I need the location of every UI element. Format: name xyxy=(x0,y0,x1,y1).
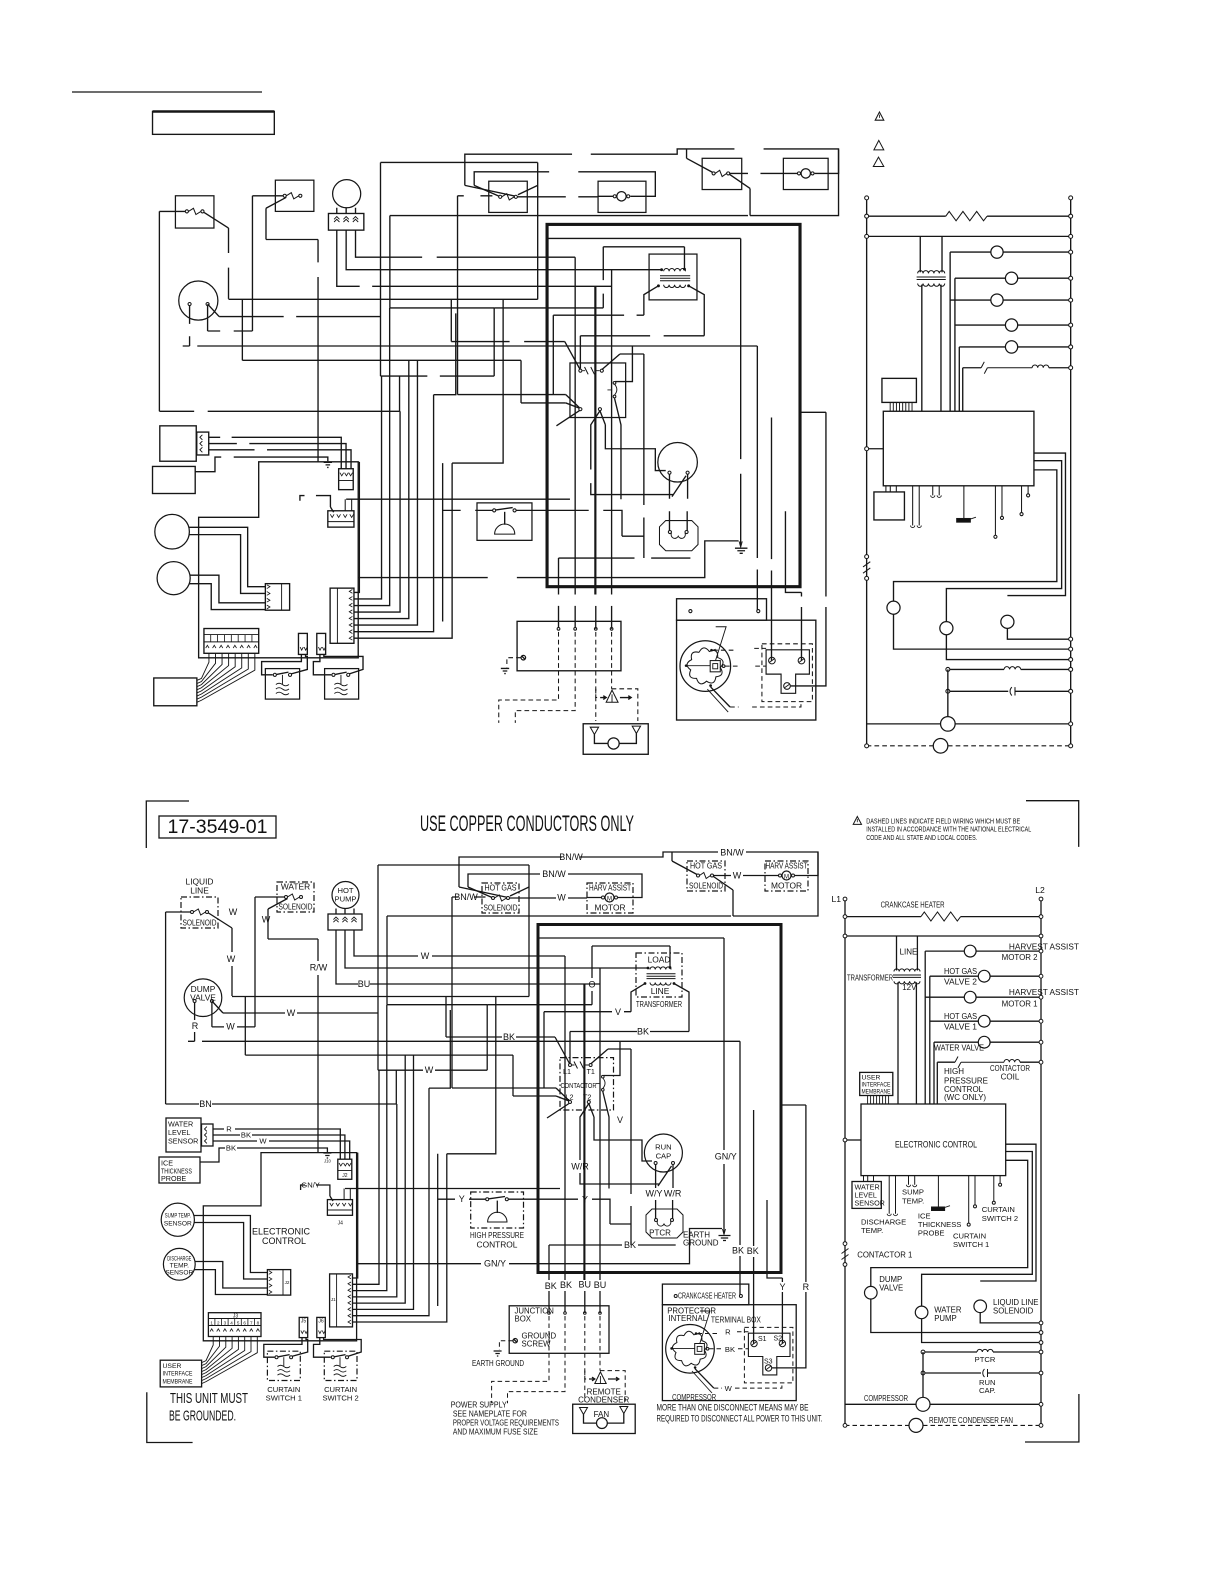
svg-text:V: V xyxy=(615,1007,621,1017)
svg-text:MOTOR: MOTOR xyxy=(594,903,625,913)
svg-text:PUMP: PUMP xyxy=(934,1314,957,1323)
svg-text:COMPRESSOR: COMPRESSOR xyxy=(864,1394,908,1403)
svg-text:AND MAXIMUM FUSE SIZE: AND MAXIMUM FUSE SIZE xyxy=(453,1427,538,1437)
svg-text:BK: BK xyxy=(747,1246,759,1256)
svg-text:W: W xyxy=(733,870,742,880)
svg-text:J1: J1 xyxy=(331,1297,336,1302)
svg-text:W: W xyxy=(425,1065,434,1075)
svg-text:W: W xyxy=(287,1008,296,1018)
svg-text:R: R xyxy=(226,1125,232,1134)
svg-text:CRANKCASE HEATER: CRANKCASE HEATER xyxy=(678,1292,736,1301)
svg-text:SWITCH 1: SWITCH 1 xyxy=(953,1240,989,1249)
svg-text:CONTROL: CONTROL xyxy=(262,1236,306,1246)
svg-text:W: W xyxy=(557,893,566,903)
svg-text:PUMP: PUMP xyxy=(335,895,357,904)
svg-text:MEMBRANE: MEMBRANE xyxy=(862,1088,891,1095)
svg-text:J10: J10 xyxy=(324,1159,331,1164)
svg-text:V: V xyxy=(617,1115,623,1125)
svg-text:J3: J3 xyxy=(233,1314,239,1320)
svg-text:Y: Y xyxy=(459,1194,465,1204)
svg-text:12V: 12V xyxy=(902,983,917,992)
svg-text:W/R: W/R xyxy=(664,1189,682,1199)
svg-text:L2: L2 xyxy=(1035,885,1045,895)
svg-text:HOT GAS: HOT GAS xyxy=(485,883,517,893)
svg-text:THIS UNIT MUST: THIS UNIT MUST xyxy=(170,1391,248,1407)
svg-text:3: 3 xyxy=(224,1320,227,1325)
svg-text:HIGH: HIGH xyxy=(944,1067,964,1076)
svg-text:W: W xyxy=(259,1137,267,1146)
ghost note triangle 3 xyxy=(873,157,884,166)
svg-text:PTCR: PTCR xyxy=(975,1355,996,1364)
svg-text:CAP.: CAP. xyxy=(979,1386,996,1395)
svg-text:SOLENOID: SOLENOID xyxy=(279,902,313,912)
svg-text:T2: T2 xyxy=(583,1093,591,1102)
svg-text:BU: BU xyxy=(579,1280,592,1290)
svg-text:INTERFACE: INTERFACE xyxy=(163,1371,193,1378)
svg-text:BK: BK xyxy=(545,1281,557,1291)
svg-text:Y: Y xyxy=(582,1195,588,1205)
svg-text:R: R xyxy=(803,1282,810,1292)
svg-text:COIL: COIL xyxy=(1001,1073,1020,1082)
svg-text:FAN: FAN xyxy=(594,1410,610,1419)
svg-text:MOTOR 2: MOTOR 2 xyxy=(1002,953,1039,962)
svg-text:J2: J2 xyxy=(285,1280,290,1285)
svg-text:GROUND: GROUND xyxy=(683,1239,719,1248)
svg-text:S2: S2 xyxy=(774,1335,783,1342)
svg-text:PTCR: PTCR xyxy=(649,1229,671,1238)
svg-text:SCREW: SCREW xyxy=(522,1340,552,1349)
svg-text:ELECTRONIC: ELECTRONIC xyxy=(252,1226,311,1236)
svg-text:BK: BK xyxy=(503,1032,515,1042)
svg-text:BK: BK xyxy=(624,1240,636,1250)
svg-text:BK: BK xyxy=(732,1245,744,1255)
svg-text:CRANKCASE HEATER: CRANKCASE HEATER xyxy=(881,901,945,910)
svg-text:ELECTRONIC CONTROL: ELECTRONIC CONTROL xyxy=(895,1139,977,1150)
svg-text:BN/W: BN/W xyxy=(720,847,744,857)
svg-text:PROBE: PROBE xyxy=(161,1174,186,1183)
svg-text:CURTAIN: CURTAIN xyxy=(982,1205,1015,1214)
svg-text:VALVE: VALVE xyxy=(879,1283,903,1292)
svg-text:REMOTE CONDENSER FAN: REMOTE CONDENSER FAN xyxy=(929,1416,1013,1425)
svg-text:5: 5 xyxy=(237,1320,240,1325)
svg-text:SOLENOID: SOLENOID xyxy=(183,918,217,928)
svg-text:W: W xyxy=(262,915,271,925)
svg-text:MORE THAN ONE DISCONNECT MEANS: MORE THAN ONE DISCONNECT MEANS MAY BE xyxy=(657,1402,809,1412)
svg-text:VALVE 1: VALVE 1 xyxy=(944,1022,978,1031)
svg-text:BU: BU xyxy=(358,979,371,989)
svg-text:L1: L1 xyxy=(563,1067,571,1076)
svg-text:DISCHARGE: DISCHARGE xyxy=(167,1255,191,1262)
svg-text:CONDENSER: CONDENSER xyxy=(578,1396,629,1405)
svg-text:S3: S3 xyxy=(764,1359,773,1366)
svg-text:MOTOR: MOTOR xyxy=(771,881,802,891)
svg-text:USER: USER xyxy=(163,1363,182,1370)
svg-text:L2: L2 xyxy=(566,1093,574,1102)
svg-text:HARVEST ASSIST: HARVEST ASSIST xyxy=(1009,943,1079,952)
svg-text:HARV ASSIST: HARV ASSIST xyxy=(766,861,808,871)
svg-text:W: W xyxy=(226,1022,235,1032)
svg-text:SENSOR: SENSOR xyxy=(164,1221,192,1228)
corner bracket top-left xyxy=(146,801,189,848)
svg-text:W/R: W/R xyxy=(571,1161,589,1171)
svg-text:TEMP.: TEMP. xyxy=(170,1262,189,1269)
svg-text:Y: Y xyxy=(779,1282,785,1292)
svg-text:HOT GAS: HOT GAS xyxy=(944,1012,977,1021)
svg-text:SENSOR: SENSOR xyxy=(165,1269,193,1276)
svg-text:TERMINAL BOX: TERMINAL BOX xyxy=(711,1316,762,1325)
svg-text:7: 7 xyxy=(250,1320,253,1325)
svg-text:W: W xyxy=(229,907,238,917)
svg-text:2: 2 xyxy=(217,1320,220,1325)
svg-text:USE COPPER CONDUCTORS ONLY: USE COPPER CONDUCTORS ONLY xyxy=(420,811,634,836)
svg-text:COMPRESSOR: COMPRESSOR xyxy=(672,1393,716,1402)
svg-text:SOLENOID: SOLENOID xyxy=(484,903,518,913)
svg-text:HIGH PRESSURE: HIGH PRESSURE xyxy=(470,1230,524,1240)
svg-text:J6: J6 xyxy=(318,1319,324,1325)
svg-text:J5: J5 xyxy=(301,1319,307,1325)
svg-text:TRANSFORMER: TRANSFORMER xyxy=(847,974,893,983)
svg-text:HARV ASSIST: HARV ASSIST xyxy=(589,883,631,893)
svg-text:VALVE: VALVE xyxy=(190,993,216,1003)
svg-text:VALVE 2: VALVE 2 xyxy=(944,977,978,986)
svg-text:M: M xyxy=(607,896,612,902)
svg-text:CONTROL: CONTROL xyxy=(477,1239,518,1249)
svg-text:BK: BK xyxy=(725,1345,735,1354)
svg-text:LOAD: LOAD xyxy=(648,955,671,965)
svg-text:TRANSFORMER: TRANSFORMER xyxy=(636,999,682,1009)
svg-text:W: W xyxy=(227,954,236,964)
svg-text:8: 8 xyxy=(257,1320,260,1325)
svg-text:MEMBRANE: MEMBRANE xyxy=(163,1378,193,1385)
ghost header underline xyxy=(72,91,262,93)
svg-text:BK: BK xyxy=(226,1144,236,1153)
svg-text:REQUIRED TO DISCONNECT ALL POW: REQUIRED TO DISCONNECT ALL POWER TO THIS… xyxy=(657,1413,823,1423)
svg-text:HOT GAS: HOT GAS xyxy=(944,967,977,976)
svg-text:GN/Y: GN/Y xyxy=(301,1181,320,1190)
svg-text:1: 1 xyxy=(210,1320,213,1325)
svg-text:BK: BK xyxy=(637,1026,649,1036)
svg-text:SOLENOID: SOLENOID xyxy=(993,1307,1034,1316)
svg-text:W/Y: W/Y xyxy=(646,1189,663,1199)
svg-text:MOTOR 1: MOTOR 1 xyxy=(1002,999,1039,1008)
svg-text:R: R xyxy=(725,1328,731,1337)
svg-text:EARTH GROUND: EARTH GROUND xyxy=(472,1359,524,1368)
svg-text:W: W xyxy=(725,1384,733,1393)
svg-text:(WC ONLY): (WC ONLY) xyxy=(944,1093,986,1102)
corner bracket bottom-right xyxy=(1025,1394,1079,1442)
svg-text:HOT GAS: HOT GAS xyxy=(690,861,722,871)
svg-text:WATER: WATER xyxy=(281,882,310,892)
svg-text:HARVEST ASSIST: HARVEST ASSIST xyxy=(1009,988,1079,997)
svg-text:GN/Y: GN/Y xyxy=(715,1152,737,1162)
svg-text:BK: BK xyxy=(241,1131,251,1140)
svg-text:T1: T1 xyxy=(587,1067,595,1076)
svg-text:INTERNAL: INTERNAL xyxy=(669,1314,708,1323)
corner bracket top-right xyxy=(1026,801,1079,847)
svg-text:J4: J4 xyxy=(338,1221,344,1227)
svg-text:LINE: LINE xyxy=(651,986,670,996)
svg-text:TEMP.: TEMP. xyxy=(902,1196,924,1205)
svg-text:BN/W: BN/W xyxy=(542,869,566,879)
svg-text:L1: L1 xyxy=(831,894,841,904)
svg-text:R/W: R/W xyxy=(310,963,328,973)
svg-text:INTERFACE: INTERFACE xyxy=(862,1081,891,1088)
svg-text:CONTACTOR: CONTACTOR xyxy=(561,1081,597,1090)
svg-text:M: M xyxy=(784,874,789,880)
svg-text:S1: S1 xyxy=(758,1336,767,1343)
svg-text:BN/W: BN/W xyxy=(559,852,583,862)
svg-text:LINE: LINE xyxy=(190,886,209,896)
corner bracket bottom-left xyxy=(147,1392,193,1442)
svg-text:CODE AND ALL STATE AND LOCAL C: CODE AND ALL STATE AND LOCAL CODES. xyxy=(866,833,977,842)
svg-text:SENSOR: SENSOR xyxy=(168,1137,198,1146)
main schematic (bottom) xyxy=(159,816,1043,1434)
svg-text:CONTACTOR 1: CONTACTOR 1 xyxy=(857,1251,912,1260)
svg-text:SUMP TEMP.: SUMP TEMP. xyxy=(165,1213,191,1220)
svg-text:BE GROUNDED.: BE GROUNDED. xyxy=(169,1408,236,1424)
svg-text:BU: BU xyxy=(594,1280,607,1290)
svg-text:O: O xyxy=(588,980,595,990)
svg-text:SOLENOID: SOLENOID xyxy=(689,881,723,891)
svg-text:BOX: BOX xyxy=(515,1315,532,1324)
ghost note triangle 2 xyxy=(874,140,884,150)
svg-text:BK: BK xyxy=(560,1280,572,1290)
svg-text:SWITCH 2: SWITCH 2 xyxy=(322,1394,358,1403)
svg-text:LINE: LINE xyxy=(900,948,918,957)
svg-text:RUN: RUN xyxy=(655,1143,671,1152)
svg-text:J2: J2 xyxy=(342,1173,348,1179)
svg-text:BN/W: BN/W xyxy=(454,892,478,902)
svg-text:4: 4 xyxy=(230,1320,233,1325)
ghost part box heavy top edge xyxy=(153,110,275,112)
svg-text:GN/Y: GN/Y xyxy=(484,1259,506,1269)
svg-text:6: 6 xyxy=(243,1320,246,1325)
svg-text:USER: USER xyxy=(862,1074,881,1081)
svg-text:WATER VALVE: WATER VALVE xyxy=(934,1044,984,1053)
svg-text:SWITCH 1: SWITCH 1 xyxy=(266,1394,302,1403)
svg-text:W: W xyxy=(421,951,430,961)
svg-text:BN: BN xyxy=(199,1099,212,1109)
svg-text:SENSOR: SENSOR xyxy=(855,1198,885,1207)
ghost schematic copy (top, scaled, no text) xyxy=(153,111,1073,754)
svg-text:17-3549-01: 17-3549-01 xyxy=(168,816,268,838)
svg-text:PROBE: PROBE xyxy=(918,1229,945,1238)
svg-text:CAP: CAP xyxy=(656,1152,672,1161)
svg-text:SWITCH 2: SWITCH 2 xyxy=(982,1214,1018,1223)
svg-text:R: R xyxy=(192,1021,199,1031)
svg-text:TEMP.: TEMP. xyxy=(861,1226,883,1235)
